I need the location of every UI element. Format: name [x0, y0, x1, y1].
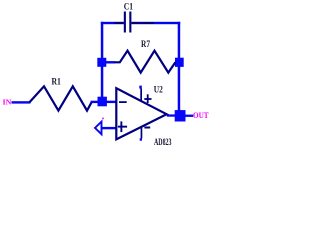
- capacitor C1 right pin: [131, 22, 154, 24]
- svg-text:OUT: OUT: [193, 111, 209, 120]
- svg-text:AD823: AD823: [154, 137, 172, 147]
- resistor R1: [30, 86, 92, 110]
- resistor R7: [114, 51, 175, 73]
- wire: top lead from left corner to C1: [101, 22, 114, 24]
- op-amp U2 triangle body: [116, 88, 166, 139]
- wire: IN lead to R1: [12, 101, 31, 103]
- op-amp U2 negative supply minus sign: [144, 127, 150, 129]
- op-amp U2: [116, 84, 172, 147]
- op-amp U2 inverting input minus sign: [119, 101, 127, 103]
- op-amp U2 positive supply pin end: [139, 86, 142, 89]
- svg-text:C1: C1: [124, 3, 133, 13]
- junction: top-right node: [175, 58, 184, 67]
- wire: op-amp output to output node: [167, 114, 176, 116]
- junction: output node: [175, 110, 186, 121]
- off-page connector arrow at non-inverting input: [95, 122, 102, 135]
- svg-text:IN: IN: [3, 98, 13, 107]
- svg-text:R7: R7: [141, 39, 150, 49]
- wire: left rail from top corner down to inverting node: [101, 22, 104, 102]
- capacitor C1 left pin: [114, 22, 124, 24]
- junction: top-left node: [97, 58, 106, 67]
- net label dot: [102, 118, 104, 120]
- wire: right rail from top corner down to output node: [178, 22, 181, 117]
- wire: output node to OUT port: [185, 115, 193, 117]
- op-amp U2 positive supply pin: [140, 89, 142, 101]
- capacitor C1 plates: [124, 12, 132, 33]
- wire: stub from top-left node to R7: [106, 61, 115, 63]
- op-amp U2 negative supply pin end: [140, 138, 142, 140]
- op-amp U2 non-inverting input plus sign: [118, 126, 127, 128]
- svg-text:R1: R1: [52, 76, 62, 86]
- wire: top lead from C1 to right corner: [154, 22, 180, 24]
- op-amp U2 negative supply pin: [141, 127, 143, 138]
- wire: inverting node to op-amp minus input: [107, 101, 117, 103]
- svg-text:U2: U2: [154, 84, 163, 94]
- wire: R1 to inverting node: [91, 101, 99, 103]
- junction: inverting input node: [98, 97, 107, 107]
- wire: arrow to op-amp plus input: [102, 127, 117, 129]
- op-amp U2 positive supply plus sign: [144, 98, 151, 100]
